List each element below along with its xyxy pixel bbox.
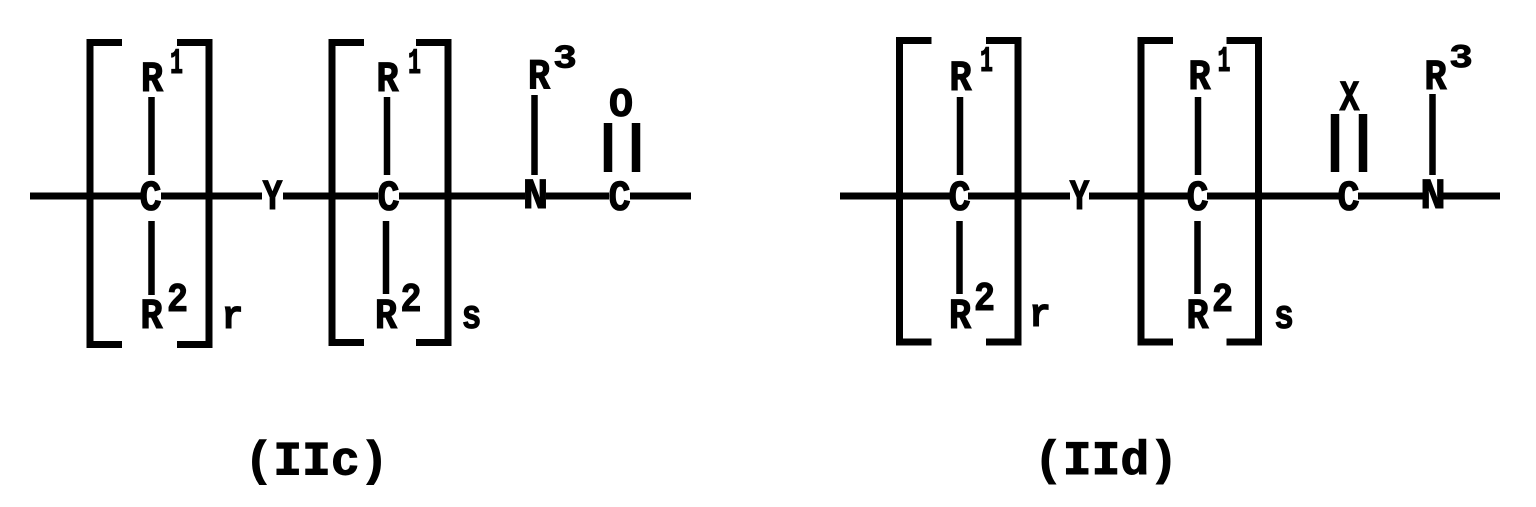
bond C to R2 (IId r-unit) xyxy=(956,221,963,294)
substituent R of R1 (IIc r-unit) xyxy=(143,63,163,91)
substituent R of R1 (IId s-unit) xyxy=(1191,61,1211,89)
bond R1 to C (IId r-unit) xyxy=(957,97,964,175)
bond C to R2 (IId s-unit) xyxy=(1194,221,1201,294)
backbone atom C (IIc s-unit) xyxy=(379,181,399,210)
superscript 2 of R2 (IId s-unit) xyxy=(1214,284,1231,311)
substituent R of R3 (IId) xyxy=(1427,61,1447,89)
amide atom N (IId) xyxy=(1423,180,1443,208)
bond C to R2 (IIc r-unit) xyxy=(148,221,155,295)
bond R1 to C (IIc s-unit) xyxy=(384,97,391,175)
superscript 3 of R3 (IIc) xyxy=(555,45,575,67)
repeat subscript r (IId) xyxy=(1033,304,1048,326)
left bracket of s-unit (IIc) xyxy=(332,43,364,343)
substituent R of R1 (IId r-unit) xyxy=(952,62,972,90)
substituent R of R3 (IIc) xyxy=(530,60,550,88)
superscript 1 of R1 (IId s-unit) xyxy=(1219,47,1229,71)
double bond C=O right stroke (IIc) xyxy=(632,123,641,172)
left bracket of s-unit (IId) xyxy=(1141,41,1173,343)
bond R3 to N (IIc) xyxy=(531,95,538,175)
chain bond N to carbonyl C (IIc) xyxy=(546,193,609,200)
formula label (IId) xyxy=(1042,439,1170,484)
bond R1 to C (IIc r-unit) xyxy=(148,97,155,175)
chain bond C to N (IIc) xyxy=(399,193,525,200)
substituent R of R2 (IIc s-unit) xyxy=(377,300,397,328)
chain bond C to thiocarbonyl C (IId) xyxy=(1207,193,1339,200)
carbonyl atom O (IIc) xyxy=(610,89,631,117)
superscript 2 of R2 (IIc r-unit) xyxy=(169,284,186,311)
superscript 2 of R2 (IId r-unit) xyxy=(976,283,993,310)
right bracket of s-unit (IIc) xyxy=(416,43,448,343)
left bracket of r-unit (IIc) xyxy=(90,43,122,345)
chain bond Y to second bracket (IId) xyxy=(1089,193,1188,200)
superscript 3 of R3 (IId) xyxy=(1451,45,1471,67)
chain bond C to N (IId) xyxy=(1358,193,1423,200)
substituent R of R2 (IId s-unit) xyxy=(1189,300,1209,328)
left bracket of r-unit (IId) xyxy=(900,41,932,343)
backbone atom C (IId r-unit) xyxy=(950,181,970,210)
chain bond C to Y (IIc) xyxy=(161,193,262,200)
backbone atom C (IIc r-unit) xyxy=(141,181,161,210)
substituent R of R2 (IIc r-unit) xyxy=(143,300,163,328)
repeat subscript s (IIc) xyxy=(464,306,480,328)
linker atom Y (IIc) xyxy=(263,181,282,209)
thiocarbonyl atom C (IId) xyxy=(1339,181,1359,210)
right bracket of s-unit (IId) xyxy=(1227,41,1259,343)
substituent R of R2 (IId r-unit) xyxy=(951,300,971,328)
backbone atom C (IId s-unit) xyxy=(1188,181,1208,210)
chain bond out of N (IId) xyxy=(1443,193,1500,200)
right bracket of r-unit (IIc) xyxy=(177,43,209,345)
superscript 1 of R1 (IIc s-unit) xyxy=(410,49,420,73)
double bond C=X right stroke (IId) xyxy=(1359,114,1368,172)
superscript 1 of R1 (IId r-unit) xyxy=(982,47,992,71)
repeat subscript r (IIc) xyxy=(225,306,240,328)
bond R1 to C (IId s-unit) xyxy=(1195,97,1202,175)
superscript 1 of R1 (IIc r-unit) xyxy=(172,49,182,73)
bond C to R2 (IIc s-unit) xyxy=(383,221,390,294)
superscript 2 of R2 (IIc s-unit) xyxy=(403,284,420,311)
formula label (IIc) xyxy=(253,440,381,485)
linker atom Y (IId) xyxy=(1070,181,1089,209)
chain bond into left bracket (IIc) xyxy=(30,193,141,200)
double bond C=O left stroke (IIc) xyxy=(604,123,613,172)
right bracket of r-unit (IId) xyxy=(986,41,1018,343)
repeat subscript s (IId) xyxy=(1276,306,1292,328)
bond R3 to N (IId) xyxy=(1429,94,1436,175)
substituent R of R1 (IIc s-unit) xyxy=(379,63,399,91)
chain bond into left bracket (IId) xyxy=(840,193,950,200)
chain bond C to Y (IId) xyxy=(968,193,1070,200)
chain bond out of carbonyl C (IIc) xyxy=(630,193,691,200)
chain bond Y to second bracket (IIc) xyxy=(283,193,378,200)
carbonyl atom C (IIc) xyxy=(610,181,630,210)
amide atom N (IIc) xyxy=(526,180,546,208)
double bond C=X left stroke (IId) xyxy=(1331,114,1340,172)
heteroatom X (IId) xyxy=(1340,82,1360,110)
